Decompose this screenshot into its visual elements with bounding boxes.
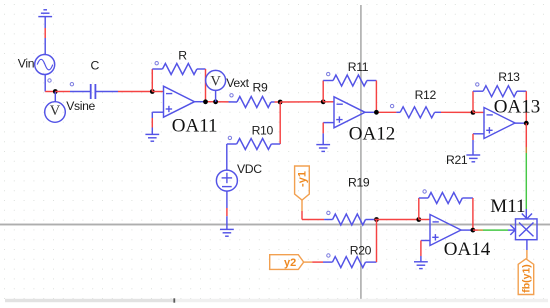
svg-text:V: V (50, 103, 61, 119)
resistor OA14 feedback (419, 193, 473, 204)
svg-text:-y1: -y1 (297, 171, 309, 187)
op-amp OA13 (484, 108, 515, 139)
op-amp OA12 (334, 97, 365, 128)
svg-text:OA12: OA12 (349, 124, 395, 145)
capacitor C (70, 84, 118, 99)
ground below OA14 (414, 262, 428, 269)
svg-text:Vsine: Vsine (66, 99, 95, 113)
pin marker R19 left (327, 211, 330, 214)
wire feedback left vertical OA13 (472, 91, 474, 112)
svg-text:VDC: VDC (237, 162, 262, 176)
net flag y2 (270, 255, 304, 270)
wire R10 to VDC+ (226, 144, 228, 170)
svg-text:M11: M11 (490, 196, 525, 217)
pin marker R left (155, 62, 158, 65)
pin marker near Vsine (48, 79, 51, 82)
wire R9 to node D (275, 101, 281, 103)
wire feedback right vertical OA12 (375, 81, 377, 113)
wire node to OA13 minus (473, 111, 484, 113)
svg-text:y2: y2 (284, 257, 296, 269)
resistor R19 (324, 214, 375, 225)
svg-text:V: V (210, 73, 221, 89)
svg-text:R10: R10 (252, 124, 274, 138)
wire ground to Vin+ (44, 17, 46, 55)
wire node to OA12 minus (323, 101, 334, 103)
node D junction (278, 100, 283, 105)
wire OA12 output (365, 111, 396, 113)
svg-text:R21: R21 (446, 153, 468, 167)
svg-text:OA11: OA11 (172, 115, 218, 136)
wire feedback left vertical OA14 (418, 198, 420, 220)
node OA11 out junction (203, 99, 208, 104)
node OA12 out junction (374, 110, 379, 115)
wire node D down to R10 (279, 102, 281, 144)
pin marker R10 left (228, 136, 231, 139)
pin marker R13 left (476, 83, 479, 86)
wire feedback right vertical OA14 (472, 198, 474, 230)
wire R20 up to junction (376, 220, 378, 263)
ground below VDC (220, 229, 234, 236)
wire y2 to R20 (304, 261, 323, 263)
op-amp OA11 (164, 86, 195, 117)
node R19/R20 junction (374, 217, 379, 222)
ground below OA11 (145, 134, 159, 141)
node OA13 out junction (524, 121, 529, 126)
svg-text:Vin: Vin (18, 56, 34, 70)
voltmeter Vext (206, 70, 226, 101)
ground below OA13 (466, 155, 480, 162)
svg-text:R: R (178, 48, 187, 62)
svg-text:R9: R9 (253, 80, 268, 94)
wire C to node B (118, 91, 152, 93)
net flag -y1 (295, 166, 310, 200)
svg-text:C: C (91, 58, 100, 72)
wire OA12 plus to ground (323, 123, 334, 145)
pin marker R20 left (327, 254, 330, 257)
wire VDC- to ground (226, 191, 228, 230)
wire node to OA14 minus (419, 219, 430, 221)
wire OA13 output (515, 122, 526, 124)
resistor R9 (229, 97, 275, 108)
svg-text:R11: R11 (348, 60, 369, 74)
voltage source VDC (216, 170, 237, 191)
wire junction to OA14 minus node (375, 219, 419, 221)
node Vext tap junction (213, 99, 218, 104)
voltage source Vin (35, 55, 55, 75)
wire feedback right vertical OA13 (525, 91, 527, 123)
svg-text:fb(y1): fb(y1) (521, 264, 533, 293)
svg-text:R20: R20 (350, 244, 372, 258)
node OA12 in junction (321, 99, 326, 104)
pin marker R11 left (327, 72, 330, 75)
svg-text:R12: R12 (415, 88, 437, 102)
svg-text:R13: R13 (498, 70, 520, 84)
svg-text:OA13: OA13 (494, 97, 540, 118)
net flag fb(y1) (518, 259, 534, 295)
pin marker R9 left (230, 94, 233, 97)
wire Vin- to node A (45, 75, 55, 92)
wire OA13 plus to ground (473, 134, 484, 155)
node OA14 in junction (416, 217, 421, 222)
node B junction (150, 89, 155, 94)
resistor R11 (OA12 feedback) (323, 75, 376, 86)
wire OA11 plus to ground (152, 112, 163, 134)
wire M11 bottom to fb(y1) flag (526, 240, 528, 259)
wire OA14 plus to ground (421, 241, 430, 262)
wire OA14 output (461, 229, 473, 231)
wire OA11 output (195, 101, 229, 103)
svg-text:R19: R19 (348, 176, 370, 190)
wire feedback left vertical OA11 (151, 69, 153, 92)
svg-text:OA14: OA14 (444, 239, 491, 260)
voltmeter Vsine (45, 92, 66, 123)
wire node A to C (55, 91, 70, 93)
resistor R12 (396, 107, 441, 118)
wire -y1 to R19 row (302, 200, 324, 219)
wire feedback right vertical OA11 (205, 69, 207, 102)
svg-text:Vext: Vext (226, 76, 249, 90)
wire node B to OA11 minus (152, 91, 163, 93)
wire R12 to OA13 minus node (441, 111, 473, 113)
wire OA13 out down to M11 (red-green) (525, 123, 527, 219)
ground (top, above Vin) (38, 10, 52, 17)
node OA13 in junction (471, 110, 476, 115)
node OA14 out junction (471, 228, 476, 233)
wire node D to OA12 minus (280, 101, 323, 103)
pin marker C left (70, 83, 73, 86)
node A junction (53, 89, 58, 94)
resistor R20 (323, 257, 377, 268)
wire OA14 out to M11 (red-green) (473, 229, 516, 231)
ground below OA12 (316, 145, 330, 152)
op-amp OA14 (430, 215, 461, 246)
wire feedback left vertical OA12 (322, 81, 324, 102)
resistor R13 (OA13 feedback) (473, 86, 526, 97)
multiplier M11 (510, 214, 537, 240)
resistor R10 (227, 139, 280, 150)
pin marker OA14 feedback resistor (423, 190, 426, 193)
resistor R (OA11 feedback) (152, 64, 205, 75)
pin marker R12 left (390, 104, 393, 107)
